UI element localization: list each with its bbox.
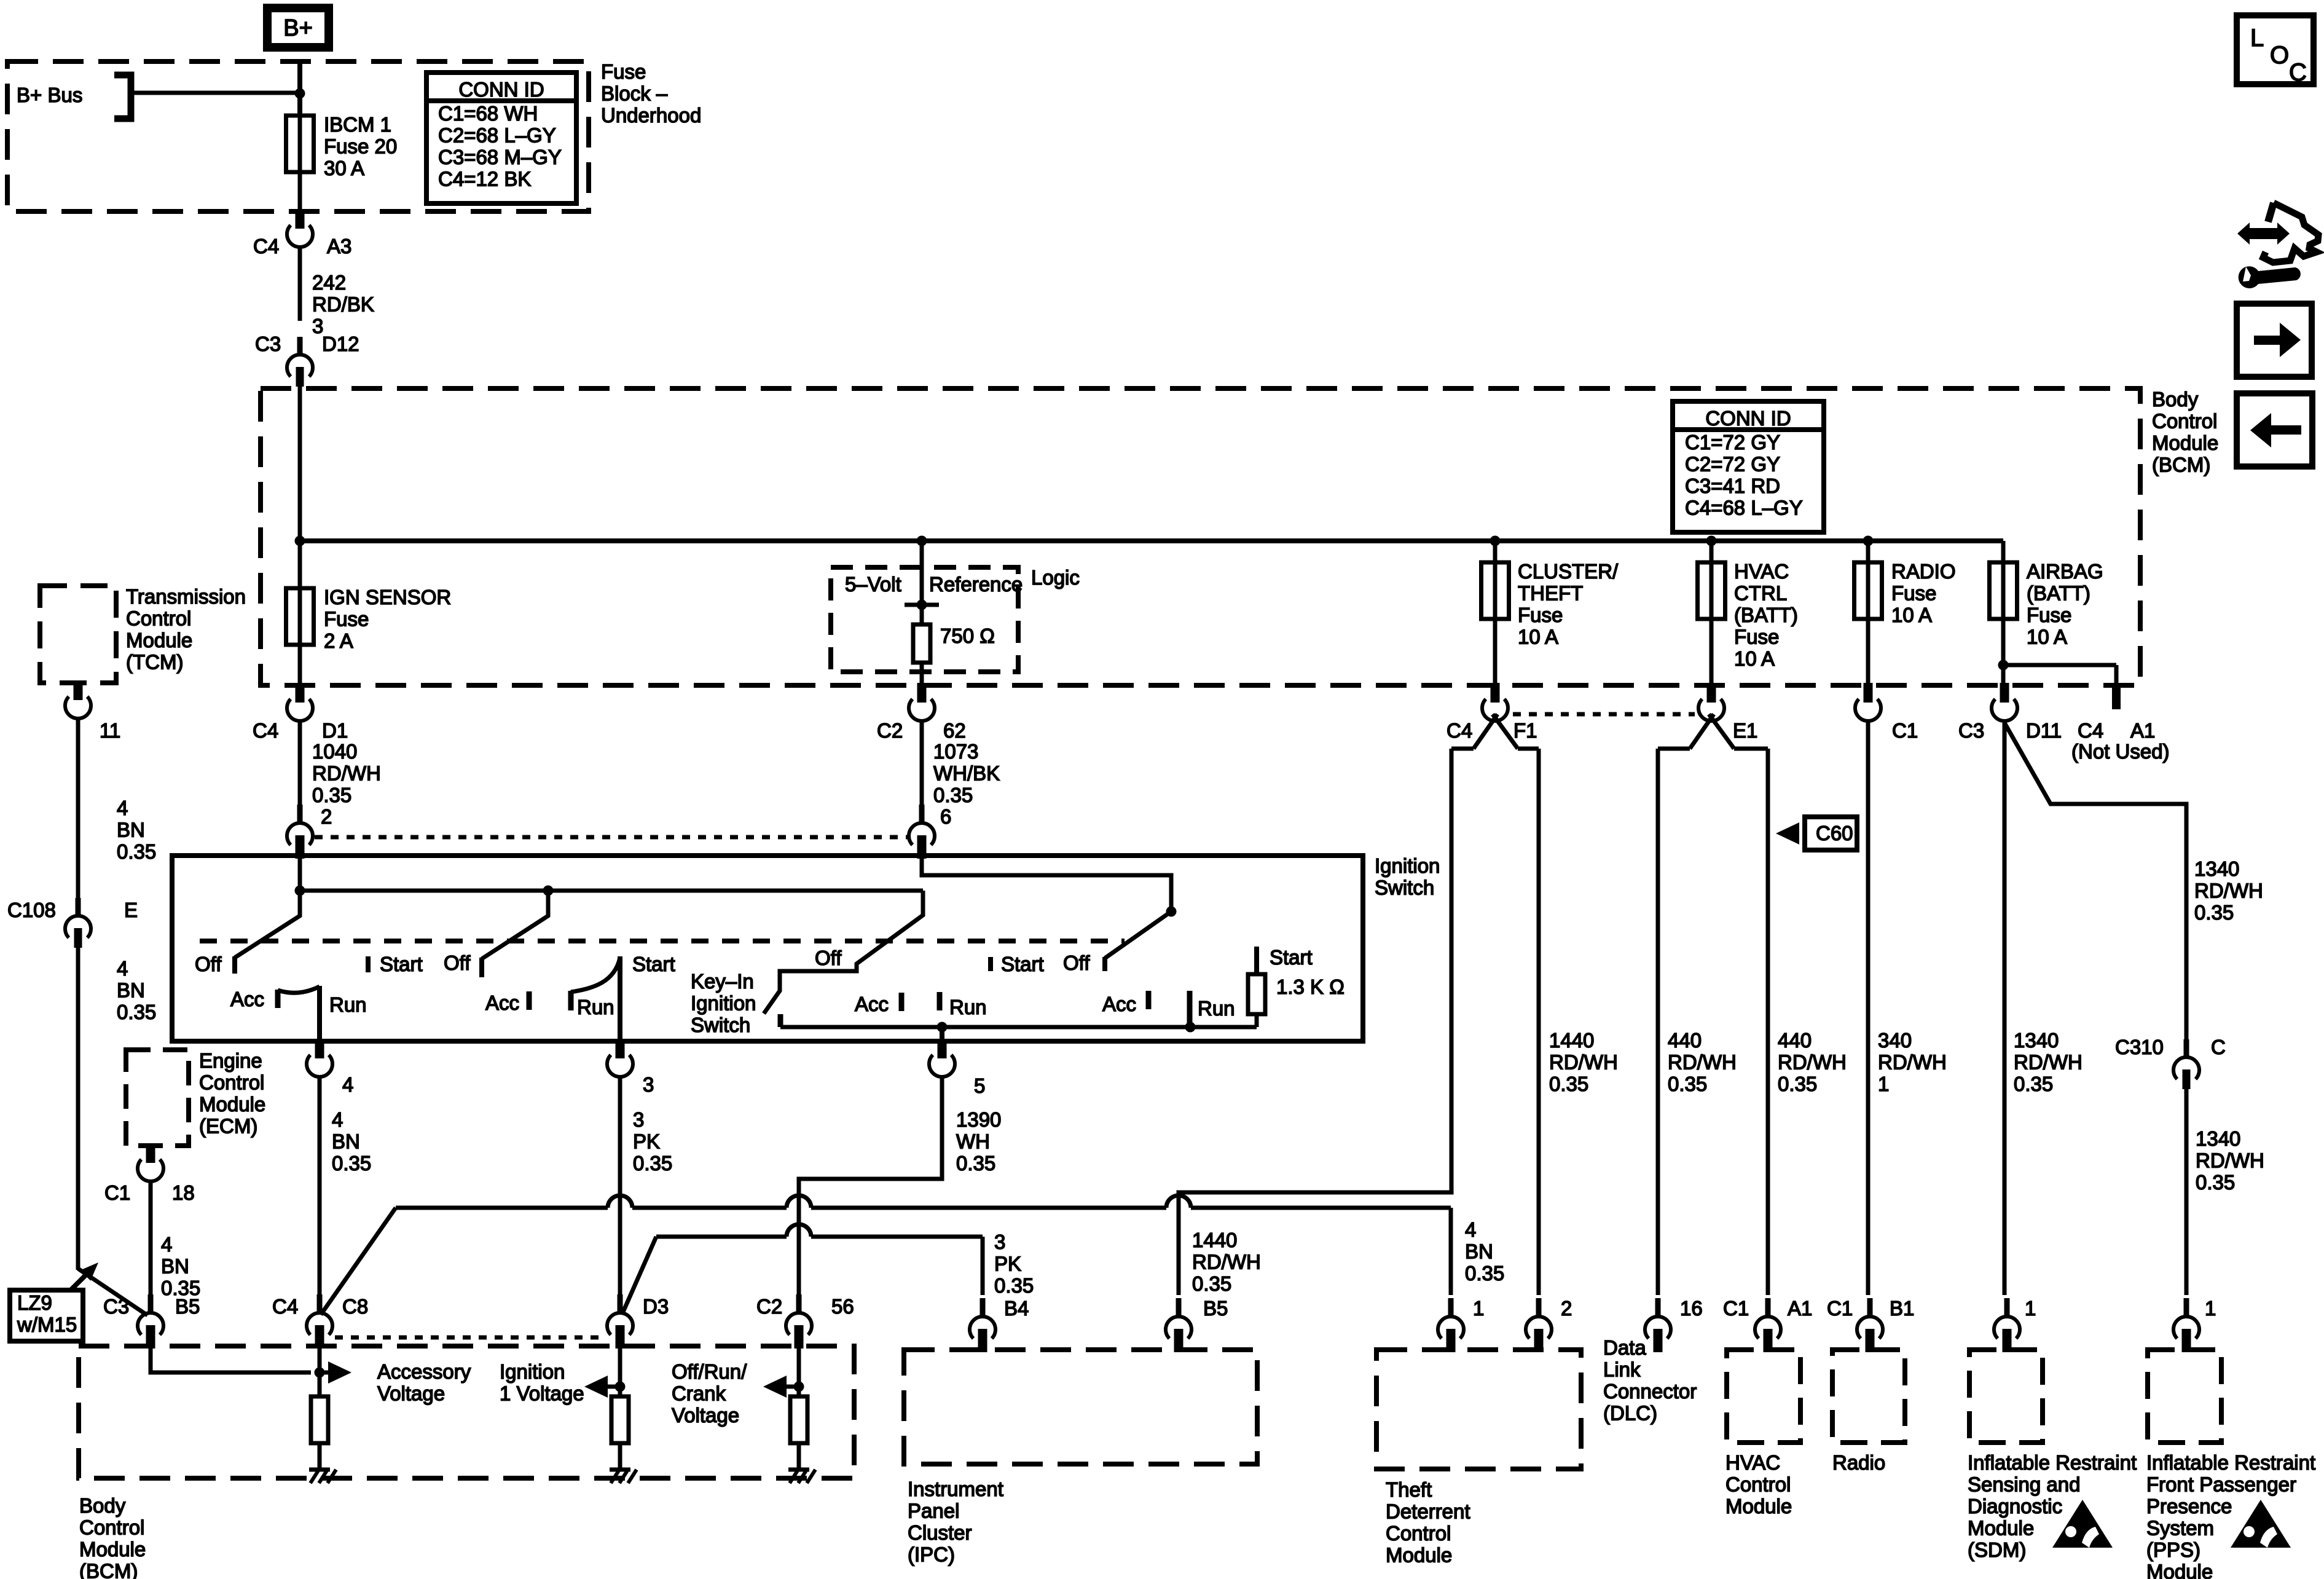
svg-text:C4=68 L–GY: C4=68 L–GY (1685, 497, 1803, 519)
junction sw2 common (543, 886, 554, 896)
wire label 1390 WH 0.35 (956, 1108, 1001, 1175)
svg-text:E: E (124, 899, 138, 921)
wire label 1440 RD/WH 0.35 (B5) (1192, 1229, 1261, 1295)
label Data Link Connector (DLC) (1603, 1336, 1697, 1425)
BCM bottom dashed box (79, 1346, 854, 1478)
svg-text:Inflatable Restraint: Inflatable Restraint (2146, 1451, 2315, 1474)
svg-text:4: 4 (1465, 1218, 1476, 1241)
svg-text:Start: Start (1270, 946, 1313, 969)
pin label F1 (1513, 719, 1537, 742)
connector 2 (ign sw input) (287, 722, 313, 859)
svg-text:C: C (2211, 1036, 2226, 1058)
label Off/Run/Crank Voltage (672, 1360, 747, 1427)
wire D3 into box (618, 1347, 622, 1387)
pin label B5 (IPC) (1203, 1297, 1228, 1320)
svg-text:4: 4 (117, 797, 128, 819)
connector TCM 11 (65, 680, 91, 719)
label 5-Volt Reference (845, 573, 1023, 596)
connector 1 (theft) (1438, 1298, 1464, 1352)
svg-text:1: 1 (2205, 1297, 2216, 1320)
svg-text:PK: PK (633, 1130, 660, 1153)
svg-text:WH: WH (956, 1130, 990, 1153)
icon wrench diagnostic (2237, 203, 2318, 288)
label 1.3 K ohm (1276, 975, 1345, 998)
wire label 1040 RD/WH 0.35 (312, 740, 381, 806)
svg-text:Ignition: Ignition (691, 992, 756, 1015)
junction bus at run sw3 (1185, 1022, 1196, 1033)
svg-text:Accessory: Accessory (377, 1360, 471, 1383)
pin label C8 (342, 1295, 368, 1318)
connector B4 (IPC) (970, 1298, 995, 1352)
wire label 1073 WH/BK 0.35 (933, 740, 1000, 806)
swing arc sw1 (278, 986, 320, 993)
svg-text:O: O (2270, 42, 2289, 69)
svg-text:Start: Start (380, 953, 423, 975)
resistor BCM ignition1 (611, 1387, 629, 1470)
svg-text:w/M15: w/M15 (17, 1313, 77, 1336)
svg-text:RD/WH: RD/WH (2014, 1051, 2083, 1074)
label RADIO Fuse 10 A (1891, 560, 1956, 626)
svg-text:Module: Module (1968, 1517, 2034, 1540)
callout box LZ9 w/M15 (10, 1262, 98, 1341)
svg-text:Control: Control (126, 607, 191, 630)
wire label 1340 RD/WH 0.35 (PPS) (2196, 1127, 2264, 1194)
switch arm sw1 (235, 891, 300, 958)
wire feed sw3 (922, 857, 1171, 912)
svg-text:Fuse: Fuse (601, 60, 646, 83)
arrow accessory voltage (320, 1361, 351, 1384)
label Start sw1 (380, 953, 423, 975)
junction bus at radio fuse (1863, 536, 1874, 546)
label Body Control Module (BCM) right (2152, 388, 2218, 476)
svg-text:Fuse: Fuse (1891, 582, 1936, 605)
contact Acc key-in (899, 993, 905, 1011)
contact Run sw2 (568, 991, 574, 1010)
svg-text:10 A: 10 A (2027, 626, 2067, 648)
svg-text:3: 3 (633, 1108, 644, 1131)
pin label E1 (1733, 719, 1757, 742)
wire 3PK line D3 to B4 (622, 1224, 983, 1315)
svg-text:11: 11 (100, 719, 120, 742)
svg-text:CTRL: CTRL (1734, 582, 1787, 605)
svg-text:HVAC: HVAC (1734, 560, 1789, 583)
svg-text:(BATT): (BATT) (1734, 604, 1798, 626)
svg-text:D12: D12 (322, 333, 359, 355)
pin label A1 (1788, 1297, 1812, 1320)
svg-text:1340: 1340 (2196, 1127, 2240, 1150)
pin label 2 (321, 805, 332, 828)
wire label 3 PK 0.35 (B4) (994, 1231, 1034, 1297)
svg-text:Voltage: Voltage (377, 1382, 445, 1405)
connector C3-B5 (BCM) (138, 1294, 163, 1349)
svg-text:C310: C310 (2115, 1036, 2164, 1058)
svg-text:C1: C1 (1827, 1297, 1853, 1320)
svg-text:D11: D11 (2026, 719, 2062, 742)
contact Acc sw2 (527, 991, 532, 1010)
svg-text:Fuse 20: Fuse 20 (324, 135, 397, 158)
pin label C1 (18) (104, 1181, 130, 1204)
dotted link F1-E1 (1513, 712, 1695, 717)
svg-text:LZ9: LZ9 (17, 1291, 52, 1314)
junction bus at cluster fuse (1490, 536, 1501, 546)
pin label 62 (943, 719, 966, 742)
svg-text:5–Volt: 5–Volt (845, 573, 901, 596)
svg-text:Module: Module (79, 1538, 146, 1561)
svg-text:RD/BK: RD/BK (312, 293, 374, 316)
wire label 1340 RD/WH 0.35 (SDM) (2014, 1029, 2083, 1095)
svg-text:Panel: Panel (908, 1500, 959, 1522)
svg-text:BN: BN (332, 1130, 360, 1153)
HVAC control module dashed box (1727, 1350, 1800, 1443)
svg-text:PK: PK (994, 1253, 1021, 1275)
svg-text:10 A: 10 A (1891, 604, 1932, 626)
pin label 4 (conn) (342, 1073, 353, 1096)
pin label C1 (A1) (1723, 1297, 1749, 1320)
svg-text:(BATT): (BATT) (2027, 582, 2090, 605)
svg-text:Start: Start (1001, 953, 1044, 975)
CONN ID box BCM (1673, 401, 1824, 532)
svg-text:Instrument: Instrument (908, 1478, 1003, 1500)
junction 5V ref (917, 600, 927, 610)
wire TCM 11 down (76, 719, 80, 899)
svg-text:5: 5 (974, 1074, 985, 1097)
pin label C4 (A3 row) (253, 235, 279, 258)
connector D3 (BCM) (607, 1294, 633, 1349)
connector C4-F1 crossover (1451, 683, 1539, 749)
svg-text:B+ Bus: B+ Bus (17, 84, 82, 106)
pin label C310 (2115, 1036, 2164, 1058)
junction bus at 5 output (937, 1022, 948, 1033)
connector C1 radio (1855, 683, 1881, 721)
wire label 1440 RD/WH 0.35 (F1) (1549, 1029, 1618, 1095)
svg-text:Off: Off (195, 953, 222, 975)
svg-text:Front Passenger: Front Passenger (2146, 1473, 2296, 1496)
wire label 4 BN 0.35 (theft) (1465, 1218, 1504, 1285)
ground BCM accessory (309, 1470, 336, 1483)
fuse RADIO 10A (1855, 541, 1882, 688)
junction accessory (315, 1368, 325, 1378)
svg-text:C4: C4 (253, 719, 278, 742)
svg-text:C2=68 L–GY: C2=68 L–GY (438, 124, 556, 147)
svg-text:RADIO: RADIO (1891, 560, 1956, 583)
wire label 1340 RD/WH 0.35 (upper) (2194, 857, 2263, 924)
svg-text:Ignition: Ignition (1375, 854, 1440, 877)
wire 340 radio (1866, 721, 1871, 1295)
wire label 4 BN 0.35 (run) (332, 1108, 371, 1175)
wire 3 down to D3 (618, 1076, 622, 1295)
svg-text:18: 18 (172, 1181, 195, 1204)
svg-text:Run: Run (1198, 997, 1235, 1020)
svg-text:1: 1 (1878, 1073, 1889, 1095)
ground BCM offruncrank (788, 1470, 815, 1483)
5-volt reference dashed box (831, 567, 1018, 672)
connector C2-56 (BCM) (786, 1294, 812, 1349)
svg-text:242: 242 (312, 271, 346, 294)
svg-text:C4: C4 (1447, 719, 1472, 742)
svg-text:System: System (2146, 1517, 2214, 1540)
svg-text:Voltage: Voltage (672, 1404, 739, 1427)
svg-text:0.35: 0.35 (994, 1274, 1034, 1297)
pin label D1 (322, 719, 348, 742)
pin label 18 (172, 1181, 195, 1204)
svg-text:0.35: 0.35 (117, 840, 156, 863)
svg-text:CONN ID: CONN ID (1705, 407, 1791, 430)
theft deterrent dashed box (1376, 1350, 1581, 1469)
pin label C4 (F1) (1447, 719, 1472, 742)
svg-text:16: 16 (1680, 1297, 1703, 1320)
svg-text:Run: Run (577, 996, 614, 1018)
svg-text:3: 3 (643, 1073, 654, 1096)
svg-text:Control: Control (79, 1516, 144, 1539)
wire 440 E1 to HVAC (1766, 749, 1770, 1295)
pin label D11 (2026, 719, 2062, 742)
svg-text:10 A: 10 A (1518, 626, 1558, 648)
svg-text:Body: Body (79, 1494, 126, 1517)
svg-text:2 A: 2 A (324, 629, 353, 652)
svg-text:B+: B+ (283, 15, 313, 41)
wire B+ bus to junction (131, 91, 300, 95)
resistor 1.3K ohm (1248, 947, 1265, 1027)
svg-text:1 Voltage: 1 Voltage (500, 1382, 584, 1405)
svg-text:Run: Run (329, 993, 367, 1016)
junction bus at 5V ref (917, 536, 927, 546)
pin label C1 (B1) (1827, 1297, 1853, 1320)
svg-text:Control: Control (1725, 1473, 1791, 1496)
label Inflatable Restraint SDM (1968, 1451, 2137, 1561)
icon box arrow left (2237, 393, 2312, 467)
svg-text:Link: Link (1603, 1358, 1641, 1381)
contact Run sw3 (1187, 991, 1193, 1027)
label Body Control Module (BCM) bottom (79, 1494, 146, 1579)
pin label C3 (D11) (1958, 719, 1984, 742)
svg-text:(ECM): (ECM) (199, 1115, 257, 1138)
label Run sw3 (1198, 997, 1235, 1020)
pin label C (C310) (2211, 1036, 2226, 1058)
svg-text:Run: Run (949, 996, 987, 1018)
connector C310-C (2173, 1039, 2199, 1089)
label Run sw2 (577, 996, 614, 1018)
svg-text:Data: Data (1603, 1336, 1646, 1359)
svg-text:Switch: Switch (691, 1014, 750, 1036)
svg-text:Module: Module (199, 1093, 265, 1116)
pin label C4 (C8) (272, 1295, 298, 1318)
label Start sw2 (632, 953, 675, 975)
contact Acc sw3 (1146, 991, 1152, 1009)
svg-text:0.35: 0.35 (933, 784, 973, 806)
svg-text:1340: 1340 (2014, 1029, 2059, 1052)
svg-text:E1: E1 (1733, 719, 1757, 742)
svg-text:Fuse: Fuse (324, 608, 369, 631)
wire to not-used C4-A1 (2003, 665, 2121, 709)
arrow ignition 1 voltage (584, 1376, 620, 1398)
wire 5 jog to 56 (799, 1076, 942, 1295)
svg-text:Radio: Radio (1832, 1451, 1885, 1474)
pin label 16 (1680, 1297, 1703, 1320)
svg-text:0.35: 0.35 (312, 784, 351, 806)
svg-text:2: 2 (1561, 1297, 1572, 1320)
wire 440 E1 to DLC (1656, 749, 1660, 1295)
svg-text:C1=68 WH: C1=68 WH (438, 102, 538, 125)
wire 1340 to SDM (2003, 723, 2007, 1295)
svg-text:0.35: 0.35 (1778, 1073, 1817, 1095)
connector 1 (PPS) (2173, 1298, 2199, 1352)
wire 1340 branch to C310 (2004, 723, 2186, 1040)
svg-text:C60: C60 (1816, 822, 1853, 845)
connector C108-E (65, 898, 91, 948)
connector 1 (SDM) (1994, 1298, 2020, 1352)
svg-text:Off: Off (444, 951, 471, 974)
svg-text:440: 440 (1668, 1029, 1702, 1052)
svg-text:(BCM): (BCM) (2152, 454, 2210, 476)
svg-text:0.35: 0.35 (633, 1152, 672, 1175)
wire D12 into BCM (298, 387, 302, 543)
label Acc sw1 (230, 988, 264, 1010)
contact Start sw3 (988, 957, 993, 971)
junction off-run-crank (794, 1382, 804, 1392)
label IBCM 1 Fuse 20 30 A (324, 113, 397, 179)
svg-text:C8: C8 (342, 1295, 368, 1318)
connector 2 (theft) (1526, 1298, 1552, 1352)
wire label 4 BN 0.35 (TCM) (117, 797, 156, 863)
svg-text:4: 4 (161, 1233, 172, 1256)
svg-text:L: L (2250, 25, 2264, 52)
pin label C4 (D1) (253, 719, 278, 742)
svg-text:Control: Control (199, 1071, 264, 1094)
resistor 750 ohm (913, 624, 930, 663)
pin label 5 (conn) (974, 1074, 985, 1097)
svg-text:(PPS): (PPS) (2146, 1538, 2200, 1561)
switch arm sw2 (482, 891, 548, 959)
engine control module dashed box (126, 1050, 189, 1146)
svg-text:(DLC): (DLC) (1603, 1402, 1657, 1425)
label Off sw1 (195, 953, 222, 975)
svg-text:B4: B4 (1004, 1297, 1029, 1320)
resistor BCM accessory (311, 1372, 328, 1470)
svg-text:Body: Body (2152, 388, 2199, 411)
svg-text:340: 340 (1878, 1029, 1912, 1052)
label HVAC Control Module (1725, 1451, 1792, 1518)
label HVAC CTRL (BATT) Fuse 10 A (1734, 560, 1798, 670)
svg-text:IGN SENSOR: IGN SENSOR (324, 586, 451, 608)
svg-text:Fuse: Fuse (2027, 604, 2071, 626)
svg-text:B1: B1 (1890, 1297, 1914, 1320)
svg-text:0.35: 0.35 (1465, 1262, 1504, 1285)
junction sw3 common (1166, 907, 1177, 917)
wire 4 down to C8 (318, 1076, 322, 1295)
svg-text:0.35: 0.35 (1549, 1073, 1588, 1095)
svg-text:C4: C4 (2078, 719, 2103, 742)
wire fuse to connector C4-A3 (298, 172, 302, 213)
connector 6 (ign sw input) (909, 722, 935, 859)
label Radio (1832, 1451, 1885, 1474)
pin label 3 (conn) (643, 1073, 654, 1096)
svg-text:0.35: 0.35 (956, 1152, 995, 1175)
wire D1 to sw1 (298, 722, 302, 805)
svg-text:3: 3 (994, 1231, 1005, 1253)
svg-text:Deterrent: Deterrent (1386, 1500, 1470, 1523)
connector C4-A3 (287, 209, 313, 247)
svg-text:A1: A1 (1788, 1297, 1812, 1320)
svg-text:Off: Off (815, 947, 842, 969)
svg-text:Start: Start (632, 953, 675, 975)
label Key-In Ignition Switch (691, 970, 756, 1036)
svg-text:C1: C1 (104, 1181, 130, 1204)
svg-text:Module: Module (2146, 1561, 2213, 1579)
swing arc sw2 (571, 958, 620, 992)
svg-text:0.35: 0.35 (117, 1001, 156, 1023)
power symbol B+ (263, 4, 333, 52)
svg-text:Off: Off (1063, 951, 1090, 974)
contact Acc sw1 (275, 990, 281, 1008)
svg-text:BN: BN (161, 1255, 189, 1278)
fuse CLUSTER/THEFT 10A (1482, 541, 1509, 688)
svg-text:C4: C4 (272, 1295, 298, 1318)
svg-text:RD/WH: RD/WH (1778, 1051, 1847, 1074)
connector C1-A1 (HVAC) (1755, 1298, 1781, 1352)
pin label 11 (100, 719, 120, 742)
label Inflatable Restraint PPS (2146, 1451, 2315, 1579)
wire 5 output drop (940, 1027, 944, 1041)
label Off key-in (815, 947, 842, 969)
svg-text:C2=72 GY: C2=72 GY (1685, 453, 1780, 476)
connector C4-C8 (BCM) (307, 1294, 332, 1349)
wire label 440 RD/WH 0.35 (DLC) (1668, 1029, 1737, 1095)
svg-text:0.35: 0.35 (2196, 1171, 2235, 1194)
svg-text:Connector: Connector (1603, 1380, 1697, 1403)
svg-text:F1: F1 (1513, 719, 1537, 742)
connector 4 (sw1 run out) (307, 1039, 332, 1077)
switch mechanical dashed line (200, 939, 1125, 943)
svg-text:0.35: 0.35 (2194, 901, 2234, 924)
wire 1440 F1 to theft2 (1537, 749, 1541, 1295)
connector E1 crossover (1658, 683, 1768, 749)
label AIRBAG (BATT) Fuse 10 A (2027, 560, 2103, 648)
svg-text:0.35: 0.35 (332, 1152, 371, 1175)
svg-text:2: 2 (321, 805, 332, 828)
key-in switch arm (764, 891, 923, 1014)
pin label C2 (62) (877, 719, 903, 742)
junction airbag not-used branch (1998, 660, 2009, 671)
label Acc sw3 (1102, 993, 1136, 1015)
svg-text:Ignition: Ignition (500, 1360, 565, 1383)
body control module dashed box (261, 388, 2140, 685)
junction under B+ (295, 89, 305, 99)
CONN ID box top (fuse block) (426, 73, 576, 203)
svg-text:(Not Used): (Not Used) (2071, 740, 2170, 763)
IPC dashed box (904, 1350, 1257, 1464)
label Start sw3 (1001, 953, 1044, 975)
svg-text:Control: Control (1386, 1522, 1451, 1545)
wire diagonal to B5 (78, 1269, 147, 1315)
svg-text:HVAC: HVAC (1725, 1451, 1780, 1474)
label Run key-in (949, 996, 987, 1018)
label Ignition Switch (1375, 854, 1440, 899)
svg-text:(BCM): (BCM) (79, 1560, 138, 1579)
junction bus at IGN sensor (295, 536, 305, 546)
svg-text:CONN ID: CONN ID (458, 78, 544, 101)
svg-text:CLUSTER/: CLUSTER/ (1518, 560, 1619, 583)
svg-text:6: 6 (940, 805, 951, 828)
svg-text:Engine: Engine (199, 1049, 262, 1072)
fuse AIRBAG (BATT) 10A (1990, 541, 2017, 688)
label Off sw2 (444, 951, 471, 974)
pin label A3 (327, 235, 351, 258)
svg-text:AIRBAG: AIRBAG (2027, 560, 2103, 583)
wire label 4 BN 0.35 (ECM) (161, 1233, 200, 1299)
wire label 340 RD/WH 1 (1878, 1029, 1947, 1095)
wire key-in to bus (779, 1026, 783, 1030)
svg-text:1040: 1040 (312, 740, 357, 763)
